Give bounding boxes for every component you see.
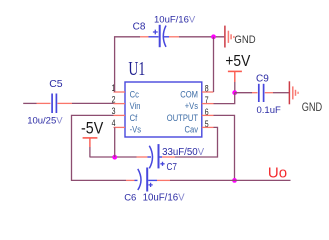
junction -5V/pin4 <box>112 155 117 160</box>
wire pin4 down to junction <box>114 127 116 157</box>
wire pin1 up to C8 <box>115 37 140 92</box>
wire C7 right pin <box>160 156 176 158</box>
svg-text:Uo: Uo <box>268 164 287 181</box>
wire pin5 down to C7 <box>175 127 218 157</box>
ground GND top <box>225 26 256 48</box>
svg-text:-Vs: -Vs <box>130 124 141 135</box>
wire C6 right to rail <box>157 179 291 181</box>
svg-text:C5: C5 <box>49 78 63 90</box>
wire pin3 left and down to rail <box>72 115 127 180</box>
svg-text:C9: C9 <box>256 73 269 84</box>
pin 5 stub <box>202 126 214 128</box>
pin 6 stub <box>202 114 214 116</box>
pin 3 stub <box>114 114 126 116</box>
ground GND right <box>289 81 322 114</box>
wire C7 to -5V junction <box>90 156 148 158</box>
svg-text:U1: U1 <box>128 57 145 79</box>
svg-text:Cc: Cc <box>130 89 140 100</box>
svg-text:GND: GND <box>302 102 323 114</box>
svg-text:33uF/50V: 33uF/50V <box>162 147 205 158</box>
svg-text:COM: COM <box>180 89 198 100</box>
junction output rail <box>232 178 237 183</box>
power -5V <box>81 119 104 157</box>
svg-text:C6: C6 <box>124 192 136 203</box>
pin numbers <box>112 83 209 129</box>
pin 7 stub <box>202 103 214 105</box>
junction +5V/C9/pin7 <box>232 90 237 95</box>
wire rail salmon segment before C6 <box>126 179 135 181</box>
wire C5 to pin2 <box>58 102 114 104</box>
svg-text:0.1uF: 0.1uF <box>257 105 281 116</box>
power +5V <box>225 52 250 93</box>
svg-text:10uF/16V: 10uF/16V <box>143 192 186 203</box>
wire C8 to GND <box>169 36 224 38</box>
svg-text:GND: GND <box>234 34 255 46</box>
capacitor C5 <box>27 78 63 126</box>
junction C8/pin8 <box>211 34 216 39</box>
capacitor C8 <box>133 14 196 47</box>
IC U1 body <box>125 57 202 137</box>
wire pin6 to output rail <box>214 115 235 180</box>
capacitor C6 <box>124 168 185 204</box>
svg-text:+Vs: +Vs <box>185 100 198 111</box>
svg-text:+5V: +5V <box>225 52 250 70</box>
svg-text:C8: C8 <box>133 21 146 32</box>
svg-text:OUTPUT: OUTPUT <box>167 112 199 123</box>
svg-text:-5V: -5V <box>81 119 104 137</box>
svg-text:Vin: Vin <box>130 100 141 111</box>
wire junction to C9 <box>235 92 258 94</box>
wire input left to C5 <box>23 102 50 104</box>
svg-text:10u/25V: 10u/25V <box>27 116 63 127</box>
wire C9 to GND right <box>265 92 289 94</box>
pin 1 stub <box>114 91 126 93</box>
pin 2 stub <box>114 103 126 105</box>
pin 4 stub <box>114 126 126 128</box>
svg-text:C7: C7 <box>167 160 177 172</box>
capacitor C9 <box>256 73 281 116</box>
pin names <box>130 89 199 135</box>
capacitor C7 <box>147 144 204 172</box>
svg-text:Cf: Cf <box>130 112 138 123</box>
svg-text:10uF/16V: 10uF/16V <box>154 14 196 25</box>
svg-text:Cav: Cav <box>184 124 198 135</box>
wire pin8 up <box>213 37 215 92</box>
wire junction down to pin7 <box>214 93 235 104</box>
pin 8 stub <box>202 91 214 93</box>
